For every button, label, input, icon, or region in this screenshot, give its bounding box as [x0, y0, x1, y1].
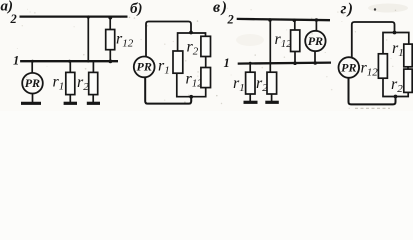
wire inner top	[178, 33, 206, 51]
faint scan wash	[368, 4, 408, 13]
instrument PR stub top	[315, 19, 317, 30]
svg-text:г): г)	[341, 1, 354, 18]
ground lead r1	[249, 94, 251, 101]
resistor r1	[173, 51, 183, 73]
junction dot top	[393, 31, 397, 35]
svg-text:PR: PR	[25, 76, 40, 90]
junction dot A	[268, 18, 272, 22]
resistor r12	[378, 54, 387, 78]
wire inner top	[383, 33, 409, 54]
junction dot PR	[31, 60, 34, 63]
instrument PR circle	[305, 31, 325, 51]
scan speckle noise	[134, 17, 135, 18]
resistor r1	[246, 72, 255, 94]
wire bus 1	[238, 63, 331, 64]
junction dot PR	[313, 61, 317, 65]
resistor r2	[267, 72, 277, 94]
resistor r12	[291, 30, 300, 52]
svg-text:PR: PR	[308, 34, 323, 48]
resistor r2	[201, 36, 211, 56]
svg-text:1: 1	[224, 56, 230, 70]
resistor r1	[404, 44, 412, 67]
instrument PR circle	[339, 57, 360, 78]
junction dot bottom	[189, 95, 193, 99]
junction dot top	[189, 31, 193, 35]
resistor r12 stub top	[294, 19, 296, 30]
wire vertical to r2	[269, 19, 271, 73]
node B junction dot	[108, 16, 112, 20]
svg-text:2: 2	[10, 12, 17, 26]
ground lead PR	[32, 93, 34, 102]
node A junction dot	[87, 15, 90, 18]
wire between r2 r12	[205, 57, 207, 68]
ground lead r2	[271, 94, 273, 101]
resistor r12 stub bottom	[294, 52, 296, 64]
noise speck	[374, 8, 376, 10]
resistor r2	[89, 72, 98, 94]
svg-text:PR: PR	[137, 60, 152, 74]
junction dot bottom	[394, 95, 398, 99]
junction dot r12	[109, 60, 113, 64]
junction dot r1	[249, 62, 252, 65]
instrument PR circle	[22, 73, 43, 94]
instrument PR stub	[31, 61, 33, 72]
junction dot r12	[293, 61, 297, 65]
ground lead r1	[69, 95, 71, 102]
resistor r1 stub	[249, 63, 251, 72]
svg-text:1: 1	[13, 54, 19, 68]
ground r1	[244, 101, 258, 104]
wire inner bottom	[383, 78, 408, 96]
wire inner bottom	[177, 73, 206, 97]
wire between r1 r2	[407, 67, 409, 69]
svg-text:в): в)	[213, 0, 227, 16]
resistor r12 stub top	[109, 16, 111, 29]
wire outer loop top	[352, 22, 395, 57]
wire bus 1	[20, 60, 118, 62]
resistor r2	[404, 69, 412, 92]
instrument PR stub bottom	[314, 51, 316, 63]
resistor r2 stub	[92, 61, 94, 72]
svg-text:2: 2	[227, 13, 234, 27]
resistor r12 stub bottom	[109, 50, 111, 62]
wire bus 2	[237, 19, 330, 20]
junction dot B	[293, 19, 297, 23]
wire outer loop top	[146, 22, 191, 57]
svg-text:PR: PR	[341, 60, 356, 74]
ground r2	[87, 102, 100, 105]
wire bus 2	[20, 15, 128, 17]
wire vertical from bus 2	[87, 16, 89, 62]
ground r2	[265, 101, 279, 104]
resistor r12	[201, 68, 211, 88]
ground r1	[64, 102, 77, 105]
junction dot C	[315, 18, 319, 22]
resistor r12	[106, 30, 115, 50]
svg-text:б): б)	[130, 1, 142, 17]
ground PR	[21, 102, 41, 105]
junction dot r1	[68, 60, 71, 63]
instrument PR circle	[134, 57, 155, 78]
wire outer loop bottom	[145, 77, 191, 104]
scan artifact dashes under circuit g bottom wire	[355, 107, 390, 109]
ground lead r2	[92, 95, 94, 102]
wire outer loop bottom	[349, 78, 396, 105]
resistor r1 stub	[69, 61, 71, 72]
resistor r1	[66, 72, 75, 94]
